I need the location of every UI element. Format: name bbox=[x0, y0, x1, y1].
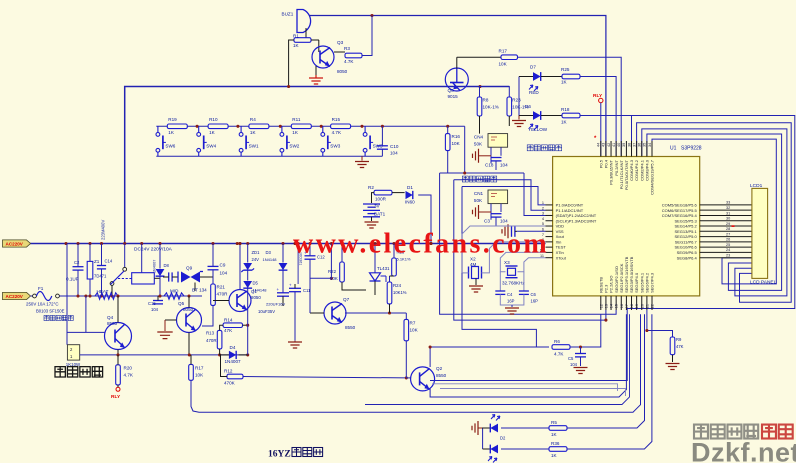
diode D2 LED bbox=[490, 424, 498, 433]
wire x85.9 vertical bbox=[85, 296, 87, 332]
svg-text:24V: 24V bbox=[252, 257, 260, 262]
svg-text:SEG13/P5.1: SEG13/P5.1 bbox=[674, 229, 697, 234]
svg-text:1K: 1K bbox=[561, 80, 568, 85]
node bus junction R1 bbox=[287, 85, 290, 88]
wire top rail to sensor loop bbox=[464, 126, 466, 173]
svg-text:50K: 50K bbox=[474, 198, 483, 203]
svg-text:28: 28 bbox=[726, 227, 730, 231]
svg-text:P1.1/ADC1/INT: P1.1/ADC1/INT bbox=[556, 208, 584, 213]
svg-text:B0103 SF150E: B0103 SF150E bbox=[36, 309, 65, 314]
wire R12 right long bbox=[243, 377, 406, 378]
svg-text:20: 20 bbox=[640, 304, 644, 308]
svg-text:SW1: SW1 bbox=[249, 144, 259, 149]
svg-text:220UF16V: 220UF16V bbox=[266, 302, 285, 307]
svg-text:Q9: Q9 bbox=[186, 266, 193, 271]
wire MCU to LCD pin 32 bbox=[700, 209, 752, 211]
wire sensor h3 bbox=[462, 187, 546, 205]
wire buzzer top to right rail bbox=[309, 16, 606, 157]
pin top 40 wire bbox=[620, 141, 622, 157]
svg-text:SW2: SW2 bbox=[289, 144, 299, 149]
svg-text:AC220V: AC220V bbox=[6, 294, 24, 299]
svg-text:13: 13 bbox=[604, 304, 608, 308]
wire D7 anode bbox=[519, 76, 533, 78]
svg-text:34: 34 bbox=[648, 143, 652, 147]
svg-text:SEG14/P5.2: SEG14/P5.2 bbox=[674, 224, 697, 229]
capacitor C7 vss bbox=[512, 226, 515, 237]
svg-text:44: 44 bbox=[597, 143, 601, 147]
wire MCU to LCD pin 30 bbox=[700, 220, 752, 222]
svg-text:33: 33 bbox=[726, 201, 730, 205]
diode D8 bbox=[159, 244, 161, 269]
svg-text:39: 39 bbox=[622, 143, 626, 147]
pin left 9 wire bbox=[546, 246, 553, 248]
svg-text:1K: 1K bbox=[168, 130, 175, 135]
svg-text:R36: R36 bbox=[551, 441, 560, 446]
battery BAT1 bbox=[363, 204, 380, 217]
triac Q9 bbox=[181, 272, 191, 283]
transistor Q3 bbox=[312, 46, 334, 68]
resistor R7 bbox=[404, 319, 409, 340]
svg-text:Q5: Q5 bbox=[178, 301, 185, 306]
svg-text:1N4148: 1N4148 bbox=[263, 257, 278, 262]
node junction Q5 emitter bbox=[188, 353, 191, 356]
wire Q7 collector row bbox=[345, 312, 406, 314]
svg-text:+: + bbox=[289, 283, 292, 288]
svg-text:(SDAT)P1.2/ADC2/INT: (SDAT)P1.2/ADC2/INT bbox=[556, 213, 597, 218]
wire R17b bottom big route bbox=[191, 314, 641, 412]
svg-text:8550: 8550 bbox=[345, 325, 356, 330]
transistor Q4 8550 bbox=[105, 323, 132, 350]
pin left 11 wire bbox=[546, 257, 553, 259]
heater MID bbox=[164, 293, 184, 299]
pin top 38 wire bbox=[631, 141, 633, 157]
svg-text:1K: 1K bbox=[551, 432, 558, 437]
transistor Q7 8550 bbox=[324, 302, 346, 324]
svg-text:Xout: Xout bbox=[556, 234, 565, 239]
svg-text:10K: 10K bbox=[452, 141, 461, 146]
pin bottom 15 wire bbox=[615, 296, 617, 310]
svg-text:10K1%: 10K1% bbox=[393, 290, 407, 295]
wire sensor loop B bbox=[524, 173, 546, 216]
wire cement to emitter row bbox=[80, 354, 248, 356]
svg-text:SEG9/P6.5: SEG9/P6.5 bbox=[677, 250, 698, 255]
svg-text:R4: R4 bbox=[250, 117, 256, 122]
svg-text:VDD: VDD bbox=[556, 224, 565, 229]
svg-text:7D471: 7D471 bbox=[94, 274, 107, 279]
pin bottom 21 wire bbox=[646, 296, 648, 310]
pin left 6 wire bbox=[546, 230, 553, 232]
shunt TL431 bbox=[374, 244, 376, 273]
svg-text:C15: C15 bbox=[148, 301, 156, 306]
svg-text:37: 37 bbox=[632, 143, 636, 147]
resistor R17b bbox=[189, 364, 194, 380]
node neutral junction x189 bbox=[187, 294, 190, 297]
switch SW3 bbox=[321, 126, 331, 156]
wire switch bank bottom rail bbox=[156, 155, 382, 157]
wire LED common vertical bbox=[518, 77, 520, 116]
svg-text:8050: 8050 bbox=[251, 295, 261, 300]
svg-text:SEG10/P6.6: SEG10/P6.6 bbox=[674, 245, 697, 250]
svg-text:3V: 3V bbox=[374, 204, 381, 209]
svg-text:XTout: XTout bbox=[556, 255, 567, 260]
capacitor C4 bbox=[495, 291, 505, 294]
fuse F1 bbox=[33, 294, 37, 298]
red mark at LCD pin bbox=[732, 225, 735, 227]
svg-text:Q2: Q2 bbox=[436, 366, 443, 371]
wire R21 bottom bbox=[202, 305, 213, 326]
wire D7 cathode to R25 bbox=[541, 76, 562, 78]
svg-text:10K-1%: 10K-1% bbox=[483, 105, 499, 110]
svg-text:RLY: RLY bbox=[593, 93, 603, 99]
svg-text:SEG7/P4.3: SEG7/P4.3 bbox=[650, 272, 655, 293]
svg-text:R23: R23 bbox=[512, 98, 521, 103]
resistor R8 bbox=[477, 97, 482, 116]
svg-text:+: + bbox=[277, 287, 280, 292]
svg-text:VSS: VSS bbox=[556, 229, 564, 234]
diode D1 bbox=[406, 191, 413, 199]
wire Q3 emitter to ground bbox=[315, 66, 317, 75]
svg-text:35: 35 bbox=[643, 143, 647, 147]
svg-text:RED: RED bbox=[529, 90, 539, 95]
label pot-bottom sensor bbox=[527, 145, 561, 151]
pin bottom 18 wire bbox=[631, 296, 633, 310]
wire Q2 base bbox=[406, 377, 410, 379]
wire X3 right up bbox=[518, 258, 546, 272]
wire relay coil feed bbox=[141, 244, 143, 273]
svg-text:0.1UF: 0.1UF bbox=[66, 277, 79, 282]
svg-text:F1: F1 bbox=[38, 286, 44, 291]
wire x298 column bbox=[297, 244, 299, 285]
svg-text:104: 104 bbox=[570, 362, 578, 367]
node junction Q4 emitter bbox=[116, 353, 119, 356]
svg-text:8550: 8550 bbox=[107, 321, 118, 326]
wire C18 bottom bbox=[495, 161, 497, 170]
wire D9 row to R36 bbox=[501, 448, 549, 450]
svg-text:8550: 8550 bbox=[436, 373, 447, 378]
capacitor C8 elec bbox=[277, 293, 289, 296]
node rail junction 331.4 bbox=[330, 242, 333, 245]
svg-text:C18: C18 bbox=[485, 163, 494, 168]
svg-text:47K: 47K bbox=[224, 328, 233, 333]
svg-text:S3P9228: S3P9228 bbox=[681, 146, 702, 152]
wire Q3 base drop bbox=[318, 40, 320, 52]
wire bus loop 1 bbox=[637, 123, 792, 302]
node sensor junction bbox=[463, 171, 466, 174]
wire MCU to LCD pin 27 bbox=[700, 236, 752, 238]
svg-text:43: 43 bbox=[602, 143, 606, 147]
ground below BAT1 bbox=[365, 222, 379, 228]
crystal X3 bbox=[508, 268, 516, 275]
svg-text:Q4: Q4 bbox=[107, 315, 114, 320]
connector cement resistor bbox=[67, 345, 79, 360]
pin left 4 wire bbox=[546, 220, 553, 222]
wire R1 left down to bus bbox=[289, 40, 294, 87]
svg-text:10uF35V: 10uF35V bbox=[258, 309, 275, 314]
pin bottom 19 wire bbox=[636, 296, 638, 310]
resistor R25 bbox=[562, 74, 580, 79]
wire Q3 collector to R3 bbox=[334, 51, 345, 53]
transistor Q2 8550 bbox=[411, 367, 435, 391]
svg-text:470K: 470K bbox=[224, 381, 236, 386]
node neutral junction x78 bbox=[76, 294, 79, 297]
wire Q1 collector bbox=[239, 244, 241, 290]
pin top 43 wire bbox=[605, 141, 607, 157]
svg-text:1K: 1K bbox=[551, 453, 558, 458]
wire CN1 pin1 down bbox=[490, 204, 492, 220]
svg-text:23: 23 bbox=[726, 254, 730, 258]
ground below Q3 bbox=[309, 78, 323, 84]
pin top 41 wire bbox=[615, 141, 617, 157]
wire R6 row bbox=[430, 346, 549, 348]
svg-text:D4: D4 bbox=[230, 345, 236, 350]
node rail junction 237.2 bbox=[236, 242, 239, 245]
svg-text:YELLOW: YELLOW bbox=[528, 127, 548, 132]
svg-text:Z1: Z1 bbox=[94, 259, 100, 264]
svg-text:D7: D7 bbox=[530, 65, 536, 70]
switch SW1 bbox=[239, 126, 249, 156]
diode D6 yellow LED bbox=[533, 111, 541, 120]
svg-text:1N4007: 1N4007 bbox=[153, 260, 157, 273]
wire R8 top bbox=[479, 87, 481, 98]
svg-text:32: 32 bbox=[726, 206, 730, 210]
svg-text:42: 42 bbox=[607, 143, 611, 147]
resistor R16 bbox=[445, 134, 450, 151]
svg-text:SW6: SW6 bbox=[165, 144, 175, 149]
svg-text:D6: D6 bbox=[525, 104, 531, 109]
wire LED common bbox=[482, 428, 484, 449]
node rail junction 310 bbox=[308, 242, 311, 245]
wire X3 left up bbox=[500, 252, 545, 271]
pin left 1 wire bbox=[546, 204, 553, 206]
svg-text:10K: 10K bbox=[195, 373, 204, 378]
label F1 note bbox=[44, 315, 73, 320]
wire R12 left bbox=[221, 355, 228, 377]
wire R17 left lead bbox=[457, 56, 501, 58]
node rail junction 342 bbox=[340, 242, 343, 245]
resistor R22 bbox=[340, 262, 345, 282]
resistor R9 bbox=[670, 337, 675, 355]
wire D1 right down to rail bbox=[418, 195, 431, 244]
wire C10 bottom bbox=[381, 149, 383, 156]
wire RLY to MCU pin bbox=[600, 103, 602, 157]
wire X2 left bbox=[462, 272, 468, 274]
svg-text:C14: C14 bbox=[105, 259, 113, 264]
svg-text:HEAT: HEAT bbox=[97, 289, 109, 294]
ground below switch bank bbox=[355, 162, 369, 168]
capacitor C13 snubber bbox=[169, 272, 172, 281]
wire Q5 emitter bbox=[188, 333, 190, 355]
wire switch bank ground stem bbox=[361, 156, 363, 160]
svg-text:COM4/SEG19/P5.7: COM4/SEG19/P5.7 bbox=[650, 159, 655, 195]
svg-text:4.7K: 4.7K bbox=[332, 130, 342, 135]
wire Q4 base bbox=[67, 331, 105, 333]
svg-text:41: 41 bbox=[612, 143, 616, 147]
node rail junction 247.7 bbox=[246, 242, 249, 245]
ground below X2 bbox=[469, 286, 483, 292]
resistor R4 bbox=[249, 124, 269, 129]
ground below LEDs bbox=[512, 121, 526, 127]
wire CN4 pin1 down bbox=[490, 147, 492, 156]
svg-text:40: 40 bbox=[617, 143, 621, 147]
wire VSS pin bbox=[517, 230, 546, 232]
wire vertical x67 bbox=[66, 244, 68, 345]
svg-text:4.7K: 4.7K bbox=[554, 352, 564, 357]
node neutral junction x118 bbox=[116, 294, 119, 297]
wire R1 right to Q3 base bbox=[311, 39, 319, 41]
wire mid line bbox=[365, 314, 630, 404]
svg-text:29: 29 bbox=[726, 222, 730, 226]
node RLY bottom bbox=[116, 387, 120, 391]
wire Q1 base bbox=[213, 300, 229, 302]
capacitor C10 bbox=[377, 146, 388, 149]
wire bus loop 3 bbox=[647, 134, 782, 290]
diode D9 LED bbox=[490, 445, 498, 454]
svg-text:Q7: Q7 bbox=[343, 297, 350, 302]
svg-text:25: 25 bbox=[726, 243, 730, 247]
wire R14 left bbox=[220, 325, 224, 330]
svg-text:R17: R17 bbox=[499, 49, 508, 54]
node rail junction 213 bbox=[211, 242, 214, 245]
wire D6 anode bbox=[519, 115, 533, 117]
port AC220V neutral bbox=[3, 292, 31, 299]
svg-text:10K: 10K bbox=[410, 328, 419, 333]
wire MCU to LCD pin 29 bbox=[700, 225, 752, 227]
svg-text:9015: 9015 bbox=[448, 94, 459, 99]
svg-text:38: 38 bbox=[627, 143, 631, 147]
svg-text:1K: 1K bbox=[209, 130, 216, 135]
svg-text:R24: R24 bbox=[393, 283, 402, 288]
wire Q5 base ground stem bbox=[164, 320, 166, 331]
node rail junction 78 bbox=[76, 242, 79, 245]
svg-text:223M400V: 223M400V bbox=[101, 220, 106, 240]
svg-text:R22: R22 bbox=[328, 269, 337, 274]
svg-text:14: 14 bbox=[610, 304, 614, 308]
IC U1 S3P9228 body bbox=[553, 157, 700, 296]
svg-text:SEG11/P6.7: SEG11/P6.7 bbox=[675, 239, 698, 244]
node rail junction 160 bbox=[158, 242, 161, 245]
node junction R13 bottom bbox=[218, 353, 221, 356]
svg-text:C9: C9 bbox=[220, 263, 226, 268]
resistor R36 bbox=[549, 447, 567, 452]
svg-text:DC24V 220V/10A: DC24V 220V/10A bbox=[134, 247, 173, 253]
ground below Q5 base bbox=[157, 332, 172, 339]
svg-text:21: 21 bbox=[645, 304, 649, 308]
wire loop0 MCU stub bbox=[631, 116, 633, 157]
varistor Z1 bbox=[87, 261, 93, 279]
svg-text:Xin: Xin bbox=[556, 239, 562, 244]
node neutral junction x101 bbox=[100, 294, 103, 297]
transistor Q5 8050 bbox=[177, 308, 202, 333]
wire sensor loop C bbox=[454, 180, 606, 320]
node top rail junction 382.4 bbox=[381, 125, 384, 128]
svg-text:C5: C5 bbox=[568, 356, 574, 361]
buzzer BUZ1 bbox=[297, 10, 311, 33]
svg-text:R2: R2 bbox=[368, 185, 374, 190]
node rail junction 141.7 bbox=[140, 242, 143, 245]
svg-text:CN1: CN1 bbox=[474, 191, 484, 196]
wire R23 bottom stub bbox=[508, 116, 510, 126]
pin top 35 wire bbox=[646, 141, 648, 157]
wire buzzer bottom to R1 bbox=[306, 28, 319, 40]
ground below C5 bbox=[574, 368, 588, 374]
ground below crystal caps bbox=[505, 308, 519, 314]
node neutral junction x85.9 bbox=[84, 294, 87, 297]
node rail junction 90 bbox=[88, 242, 91, 245]
wire Q5 collector bbox=[188, 296, 190, 308]
watermark dzkf cn bbox=[694, 425, 758, 439]
wire caps to ground bbox=[500, 294, 524, 305]
svg-text:R5: R5 bbox=[551, 420, 557, 425]
wire R36 right bbox=[567, 314, 652, 449]
node rail junction 431 bbox=[429, 242, 432, 245]
svg-text:U1: U1 bbox=[670, 146, 677, 152]
wire R25 right to MCU pin bbox=[580, 77, 616, 157]
ground left of LEDs bbox=[472, 421, 478, 435]
svg-text:BUZ1: BUZ1 bbox=[282, 12, 294, 17]
wire main horizontal bus bbox=[125, 87, 510, 244]
node rail junction 298.1 bbox=[297, 242, 300, 245]
pin left 10 wire bbox=[546, 251, 553, 253]
node top rail junction 237.9 bbox=[236, 125, 239, 128]
resistor R20 bbox=[116, 365, 121, 385]
wire MCU to LCD pin 25 bbox=[700, 246, 752, 248]
wire Q7 base bbox=[310, 312, 324, 314]
svg-text:8050: 8050 bbox=[337, 69, 348, 74]
svg-text:R8: R8 bbox=[483, 98, 489, 103]
wire R22 TL431 link bbox=[342, 282, 366, 290]
wire sensor h2 bbox=[454, 180, 546, 210]
pin top 36 wire bbox=[641, 141, 643, 157]
resistor R11 bbox=[291, 124, 311, 129]
svg-text:36: 36 bbox=[638, 143, 642, 147]
wire coil right to D8 bbox=[154, 277, 160, 279]
resistor R1 bbox=[294, 38, 311, 43]
resistor R13 bbox=[217, 330, 222, 349]
svg-text:250V 10A 172°C: 250V 10A 172°C bbox=[26, 302, 59, 307]
capacitor C18 bbox=[491, 158, 502, 161]
resistor R14 bbox=[223, 323, 242, 328]
svg-text:RLY: RLY bbox=[111, 394, 121, 400]
svg-text:470R: 470R bbox=[206, 338, 217, 343]
wire sensor loop D bbox=[462, 187, 536, 348]
capacitor C5 bbox=[575, 354, 586, 357]
svg-text:R9: R9 bbox=[676, 337, 682, 342]
switch SW4 bbox=[197, 126, 207, 156]
wire MCU to LCD pin 33 bbox=[700, 204, 752, 206]
svg-text:104: 104 bbox=[500, 219, 508, 224]
crystal X2 bbox=[472, 267, 479, 279]
svg-text:16P: 16P bbox=[507, 299, 515, 304]
svg-text:100R: 100R bbox=[375, 197, 387, 202]
svg-text:R10: R10 bbox=[209, 117, 218, 122]
svg-text:ZD1: ZD1 bbox=[252, 250, 261, 255]
switch SW2 bbox=[280, 126, 290, 156]
wire C10 top bbox=[381, 126, 383, 146]
pin bottom 22 wire bbox=[651, 296, 653, 310]
node top rail junction 447.7 bbox=[446, 125, 449, 128]
wire AC neutral to fuse bbox=[31, 295, 33, 297]
resistor R18 bbox=[562, 113, 580, 118]
ground left of CN1 bbox=[473, 205, 479, 219]
svg-text:LCD1: LCD1 bbox=[750, 183, 763, 189]
svg-text:R14: R14 bbox=[224, 318, 233, 323]
node neutral junction x90 bbox=[88, 294, 91, 297]
svg-text:COM6/SEG17/P5.5: COM6/SEG17/P5.5 bbox=[662, 208, 698, 213]
svg-text:10K: 10K bbox=[499, 62, 508, 67]
node rail junction 295 bbox=[293, 242, 296, 245]
node top rail junction 280.3 bbox=[279, 125, 282, 128]
svg-text:104: 104 bbox=[151, 307, 159, 312]
